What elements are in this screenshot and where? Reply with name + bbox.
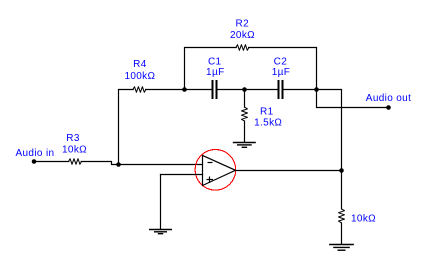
wire: op-amp noninverting input xyxy=(161,174,203,176)
op-amp inverting pin minus sign xyxy=(208,162,213,164)
svg-text:R1: R1 xyxy=(260,107,274,118)
junction node A xyxy=(116,162,121,167)
wire: noninverting input down to ground xyxy=(160,175,162,230)
wire: R4 to node B xyxy=(146,89,185,91)
ground (noninverting input) xyxy=(149,230,172,234)
svg-text:R4: R4 xyxy=(133,59,147,70)
label R1 xyxy=(254,107,282,129)
wire: C2 to node D xyxy=(284,89,317,91)
resistor R2 xyxy=(236,45,249,51)
ground (load) xyxy=(329,245,354,251)
wire: node C to C2 xyxy=(245,89,278,91)
junction node B xyxy=(182,87,187,92)
wire: node A to op-amp inverting input xyxy=(119,164,203,166)
wire: node E down to load resistor xyxy=(341,171,343,209)
svg-text:10kΩ: 10kΩ xyxy=(62,145,87,156)
label C2 xyxy=(272,56,290,78)
op-amp triangle xyxy=(203,155,236,185)
svg-text:1µF: 1µF xyxy=(272,67,290,78)
svg-text:1.5kΩ: 1.5kΩ xyxy=(254,118,282,129)
wire: R2 right and down to node D xyxy=(249,48,317,90)
wire: R3 to node A (jog) xyxy=(81,162,118,165)
resistor R1 xyxy=(242,107,248,121)
svg-text:20kΩ: 20kΩ xyxy=(230,30,255,41)
label R4 xyxy=(124,59,155,82)
svg-text:100kΩ: 100kΩ xyxy=(124,71,155,82)
wire: Audio in terminal to R3 xyxy=(34,161,69,163)
svg-text:1µF: 1µF xyxy=(206,67,224,78)
junction node D xyxy=(314,87,319,92)
capacitor C1 xyxy=(213,80,217,99)
ground (R1) xyxy=(233,143,256,148)
terminal: Audio out xyxy=(386,105,391,110)
label R3 xyxy=(62,133,87,156)
wire: node C down to R1 xyxy=(244,90,246,108)
junction node C xyxy=(242,87,247,92)
svg-text:C1: C1 xyxy=(208,56,222,67)
wire: load resistor to ground xyxy=(341,223,343,244)
wire: op-amp output to node E xyxy=(236,170,342,172)
wire: node B up and right to R2 xyxy=(185,48,237,90)
wire: node A up to R4 xyxy=(119,90,134,165)
op-amp noninverting pin plus sign xyxy=(207,177,214,184)
junction node E xyxy=(339,168,344,173)
wire: node D right and down to node E xyxy=(317,90,342,171)
capacitor C2 xyxy=(279,80,283,99)
wire: node D down and right to Audio out xyxy=(317,90,389,108)
wire: R1 to ground xyxy=(244,121,246,142)
resistor R4 xyxy=(133,87,146,93)
svg-text:Audio in: Audio in xyxy=(16,148,55,159)
op-amp red circle xyxy=(195,150,236,191)
resistor R3 xyxy=(69,159,82,165)
wire: C1 to node C xyxy=(218,89,245,91)
terminal: Audio in xyxy=(32,159,37,164)
resistor 10k load xyxy=(339,209,345,223)
svg-text:R2: R2 xyxy=(236,18,250,29)
svg-text:R3: R3 xyxy=(66,133,80,144)
wire: node B to C1 xyxy=(185,89,212,91)
svg-text:C2: C2 xyxy=(274,56,288,67)
svg-text:Audio out: Audio out xyxy=(366,93,411,104)
svg-text:10kΩ: 10kΩ xyxy=(351,214,376,225)
label C1 xyxy=(206,56,224,78)
label R2 xyxy=(230,18,255,41)
